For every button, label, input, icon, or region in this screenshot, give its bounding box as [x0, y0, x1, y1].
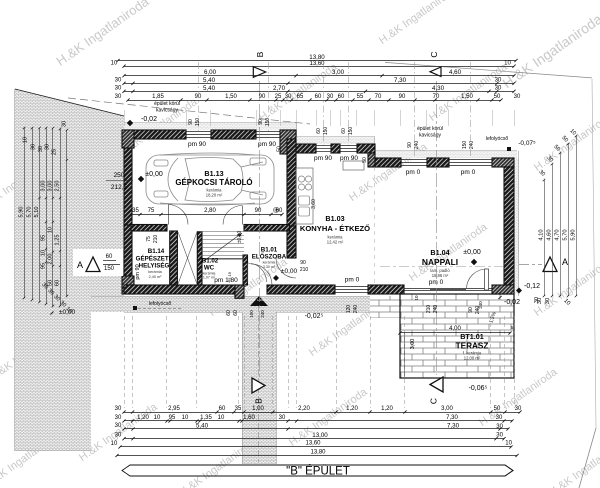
svg-text:kavicságy: kavicságy [156, 108, 178, 114]
svg-text:30: 30 [115, 415, 122, 421]
svg-text:30: 30 [495, 86, 502, 92]
svg-text:1,50: 1,50 [461, 94, 473, 100]
svg-text:30: 30 [545, 298, 551, 304]
svg-text:10: 10 [23, 137, 29, 143]
svg-text:13,60: 13,60 [305, 441, 321, 447]
window garage north 2 [256, 131, 280, 133]
left chain mid ticks [45, 221, 47, 223]
car in garage B1.13 [146, 153, 274, 205]
svg-text:4,60: 4,60 [547, 229, 553, 240]
svg-text:50: 50 [277, 146, 283, 152]
svg-text:10: 10 [504, 61, 511, 67]
svg-text:10: 10 [111, 441, 118, 447]
svg-text:30: 30 [115, 433, 122, 439]
svg-text:60: 60 [276, 208, 283, 214]
window nappali north 2 [449, 159, 492, 161]
wall bottom nappali-west [368, 285, 404, 294]
svg-text:60: 60 [315, 94, 322, 100]
section line B vertical [259, 81, 261, 377]
svg-text:1,85: 1,85 [152, 94, 164, 100]
svg-text:10: 10 [218, 415, 225, 421]
gravel strip above garage [124, 123, 296, 130]
window kitchen south [335, 286, 368, 288]
svg-text:250: 250 [114, 172, 125, 179]
section marker A left [86, 257, 100, 272]
section marker A right [543, 257, 557, 272]
svg-text:-0,06⁵: -0,06⁵ [469, 385, 488, 392]
svg-text:-0,02⁵: -0,02⁵ [305, 313, 324, 320]
door WC arc [248, 263, 267, 282]
svg-text:150: 150 [323, 127, 329, 136]
svg-text:30: 30 [115, 78, 122, 84]
svg-text:60: 60 [55, 280, 61, 286]
gravel strip below building [91, 296, 370, 312]
svg-text:GÉPÉSZETI: GÉPÉSZETI [136, 255, 171, 263]
dim row bottom 5 [120, 446, 511, 448]
svg-text:1,25: 1,25 [55, 235, 61, 246]
svg-text:2,80: 2,80 [204, 208, 216, 214]
svg-text:50: 50 [362, 157, 368, 163]
terrain hatch left band [15, 89, 124, 451]
svg-text:pm 90: pm 90 [188, 141, 206, 148]
svg-text:150: 150 [348, 127, 354, 136]
svg-text:pm 0: pm 0 [345, 277, 360, 284]
svg-text:C: C [429, 51, 439, 57]
svg-text:B1.04: B1.04 [430, 248, 449, 257]
svg-text:210: 210 [426, 305, 432, 314]
wall nappali top pier [427, 158, 449, 167]
terrain hatch edge lines [15, 89, 124, 116]
entry walkway band [242, 312, 276, 464]
svg-text:60: 60 [233, 310, 239, 316]
svg-text:12,00 m²: 12,00 m² [464, 356, 481, 361]
pier at entry [235, 285, 244, 298]
svg-text:30: 30 [496, 415, 503, 421]
svg-text:3,00: 3,00 [410, 339, 416, 350]
svg-text:-0,02: -0,02 [141, 116, 157, 123]
left dim chains [24, 128, 26, 298]
stair direction line [204, 233, 242, 261]
dim row bottom 2 [124, 420, 512, 422]
garage internal dim line [131, 214, 282, 216]
svg-text:pm 0: pm 0 [406, 169, 421, 176]
entry door opening [244, 286, 246, 288]
svg-text:150: 150 [104, 266, 115, 272]
svg-text:60: 60 [226, 310, 232, 316]
section line C vertical [436, 81, 438, 375]
svg-text:TERASZ: TERASZ [456, 342, 489, 351]
svg-text:100: 100 [249, 310, 254, 318]
svg-text:1,60: 1,60 [243, 415, 255, 421]
kitchen north table [343, 161, 364, 170]
construction lines top [124, 110, 126, 126]
svg-text:70: 70 [375, 94, 382, 100]
svg-text:WC: WC [204, 265, 215, 272]
svg-text:B: B [255, 51, 265, 57]
white box behind A marker [73, 249, 123, 276]
svg-text:95: 95 [41, 235, 47, 241]
dim row top 3 partition [124, 75, 514, 77]
svg-text:35: 35 [235, 406, 242, 412]
svg-text:30: 30 [31, 144, 37, 150]
svg-text:95: 95 [41, 263, 47, 269]
kitchen burners [298, 176, 304, 182]
svg-text:240: 240 [469, 141, 475, 150]
svg-text:B: B [254, 398, 264, 404]
svg-text:5,40: 5,40 [203, 85, 216, 92]
construction lines bottom [124, 316, 126, 408]
svg-text:pm 90: pm 90 [258, 141, 276, 148]
svg-text:90: 90 [407, 142, 413, 148]
section marker B top [253, 67, 265, 78]
wall west of garage [124, 139, 132, 225]
wall corner SE [492, 285, 514, 294]
window kitchen north 1 [316, 145, 331, 147]
svg-text:30: 30 [279, 415, 286, 421]
svg-text:pm 90: pm 90 [135, 264, 141, 279]
B epulet banner [122, 465, 513, 476]
svg-text:4,30: 4,30 [432, 85, 445, 92]
wall kitchen west lower [287, 226, 296, 258]
terrace door leaf and arc [467, 269, 487, 289]
svg-text:3,00: 3,00 [41, 181, 47, 192]
dim row bottom 6 [117, 455, 517, 457]
svg-text:10: 10 [41, 250, 47, 256]
svg-text:3,00: 3,00 [48, 181, 54, 192]
svg-text:3,60: 3,60 [311, 199, 317, 209]
stair treads [202, 231, 244, 233]
window kitchen north 2 [340, 145, 357, 147]
svg-text:13,60: 13,60 [309, 61, 325, 67]
garage floor drain [273, 207, 278, 212]
svg-text:30: 30 [45, 144, 51, 150]
wall garage/eloszoba separator [244, 225, 290, 232]
svg-text:240: 240 [353, 305, 359, 314]
svg-text:10: 10 [111, 61, 118, 67]
dim row top 6 detail [128, 100, 501, 102]
svg-text:B1.01: B1.01 [261, 247, 278, 254]
svg-text:95: 95 [169, 415, 176, 421]
svg-text:75: 75 [148, 208, 155, 214]
terrain line top-right [385, 62, 592, 78]
door eloszoba-kitchen arc [276, 258, 296, 278]
svg-text:150: 150 [265, 118, 271, 127]
dim row top 5 [124, 91, 514, 93]
svg-text:30: 30 [496, 433, 503, 439]
svg-text:±0,00: ±0,00 [237, 231, 243, 244]
svg-text:-0,12: -0,12 [524, 283, 540, 290]
svg-text:65: 65 [297, 94, 304, 100]
svg-text:HELYISÉG: HELYISÉG [139, 262, 170, 270]
svg-text:ÜT. LAKÁS: ÜT. LAKÁS [251, 298, 266, 302]
svg-text:-0,02: -0,02 [504, 299, 520, 306]
svg-text:55: 55 [357, 94, 364, 100]
svg-text:4,60: 4,60 [449, 69, 462, 76]
dim row bottom 3 [124, 428, 508, 430]
svg-text:60: 60 [316, 128, 322, 134]
svg-text:5,10: 5,10 [34, 207, 40, 218]
svg-text:25: 25 [275, 94, 282, 100]
svg-text:B1.13: B1.13 [204, 169, 223, 178]
svg-text:50: 50 [494, 406, 501, 412]
WC north wall line [202, 258, 243, 260]
svg-text:1,20: 1,20 [137, 415, 149, 421]
dim row bottom 1 [124, 412, 520, 414]
svg-text:1,35: 1,35 [200, 415, 212, 421]
svg-text:150: 150 [195, 118, 201, 127]
section marker B bottom [252, 378, 265, 393]
svg-text:5,90: 5,90 [19, 207, 25, 218]
wall stairs/WC [197, 232, 202, 285]
svg-text:10: 10 [182, 415, 189, 421]
terrace dims [400, 332, 510, 334]
svg-text:210: 210 [300, 267, 309, 273]
svg-text:pm 90: pm 90 [340, 155, 358, 162]
svg-text:75 19: 75 19 [227, 271, 232, 282]
svg-text:30: 30 [62, 121, 68, 127]
svg-text:5,70: 5,70 [563, 229, 569, 240]
svg-text:90: 90 [300, 260, 306, 266]
svg-text:3,00: 3,00 [441, 406, 453, 412]
svg-text:13,00: 13,00 [312, 432, 328, 439]
wall bottom eloszoba/kitchen [267, 285, 335, 294]
svg-text:12,42 m²: 12,42 m² [327, 240, 344, 245]
section line A stubs [100, 264, 122, 266]
svg-text:30: 30 [496, 424, 503, 430]
svg-text:90: 90 [468, 307, 474, 313]
door arc garage stairs [223, 206, 242, 225]
stair shaft cross [178, 232, 197, 284]
svg-text:30: 30 [115, 86, 122, 92]
entry arrow [250, 296, 268, 306]
svg-text:-0,07⁵: -0,07⁵ [518, 140, 536, 147]
svg-text:7,30: 7,30 [446, 415, 458, 421]
svg-text:5,90: 5,90 [571, 229, 577, 240]
svg-text:30: 30 [285, 94, 292, 100]
svg-text:3,00: 3,00 [332, 69, 345, 76]
svg-text:"B" ÉPÜLET: "B" ÉPÜLET [286, 465, 350, 478]
window nappali north 1 [401, 159, 427, 161]
svg-text:±0,00: ±0,00 [145, 171, 163, 178]
svg-text:2,70: 2,70 [273, 85, 286, 92]
svg-text:18,20 m²: 18,20 m² [206, 193, 223, 198]
svg-text:10: 10 [48, 227, 54, 233]
wall garage top-west [124, 130, 186, 139]
right dim chains [544, 180, 546, 296]
svg-text:50: 50 [494, 94, 501, 100]
svg-text:GÉPKOCSI TÁROLÓ: GÉPKOCSI TÁROLÓ [175, 178, 252, 187]
svg-text:épület körül: épület körül [417, 126, 443, 132]
svg-text:7,30: 7,30 [447, 423, 460, 430]
svg-text:épület körül: épület körül [154, 101, 180, 107]
svg-text:90: 90 [258, 119, 264, 125]
svg-text:BT1.01: BT1.01 [460, 332, 484, 341]
svg-text:5,70: 5,70 [27, 207, 33, 218]
dim row top 4 [124, 83, 514, 85]
svg-text:pm 90: pm 90 [314, 155, 332, 162]
walkway centerline [258, 306, 260, 462]
svg-text:ELŐSZOBA: ELŐSZOBA [252, 254, 287, 261]
svg-text:pm 0: pm 0 [429, 279, 444, 286]
svg-text:240: 240 [433, 305, 439, 314]
svg-text:7,30: 7,30 [394, 77, 407, 84]
svg-text:60: 60 [219, 406, 226, 412]
wall corner nappali NE [492, 158, 514, 167]
dim row top 2 13,60 [124, 66, 514, 68]
svg-text:1,20: 1,20 [381, 406, 393, 412]
svg-text:B1.03: B1.03 [325, 214, 344, 223]
terrain dashed line top-left [68, 98, 310, 124]
wall garage top-mid [211, 130, 256, 139]
door arc garage to B1.14 [168, 205, 188, 225]
dim row bottom 4 [124, 438, 504, 440]
section marker C top [430, 67, 441, 77]
svg-text:1,50: 1,50 [225, 94, 237, 100]
wall kitchen top pier [331, 144, 340, 153]
svg-text:A: A [77, 260, 83, 270]
section marker C bottom [430, 377, 443, 392]
window garage north 1 [186, 131, 211, 133]
svg-text:3,30 m²: 3,30 m² [263, 265, 276, 269]
svg-text:KONYHA - ÉTKEZŐ: KONYHA - ÉTKEZŐ [300, 224, 370, 233]
svg-text:B1.14: B1.14 [148, 248, 165, 255]
svg-text:2,00: 2,00 [48, 254, 54, 265]
svg-text:30: 30 [514, 94, 521, 100]
svg-text:6,00: 6,00 [204, 69, 217, 76]
svg-text:70: 70 [433, 94, 440, 100]
svg-text:18,86 m²: 18,86 m² [432, 273, 449, 278]
svg-text:90: 90 [399, 94, 406, 100]
svg-text:±0,00: ±0,00 [281, 268, 298, 275]
gravel strip above kitchen [296, 137, 375, 144]
svg-text:2,95: 2,95 [168, 406, 180, 412]
svg-text:1,20: 1,20 [346, 406, 358, 412]
svg-text:pm 0: pm 0 [461, 169, 476, 176]
svg-text:30: 30 [327, 94, 334, 100]
svg-text:10: 10 [505, 441, 512, 447]
svg-text:240: 240 [475, 306, 481, 315]
wall nappali top-west [375, 158, 401, 167]
svg-text:75: 75 [146, 236, 152, 242]
svg-text:60: 60 [338, 94, 345, 100]
wall garage/B1.14 separator [131, 225, 167, 232]
terrace BT1.01 slab [400, 294, 514, 378]
svg-text:NAPPALI: NAPPALI [422, 257, 458, 267]
svg-text:30: 30 [38, 146, 44, 152]
kitchen dash separator [374, 167, 376, 285]
wall step kitchen/nappali [368, 153, 375, 167]
wall kitchen top-east [357, 144, 375, 153]
pier SW corner [122, 276, 134, 294]
svg-text:10: 10 [154, 415, 161, 421]
wall corner garage/kitchen [280, 130, 296, 154]
svg-text:30: 30 [534, 297, 540, 303]
svg-text:240: 240 [260, 310, 265, 318]
door entry arc [251, 264, 272, 285]
svg-text:lefolyócső: lefolyócső [486, 136, 508, 142]
svg-text:90: 90 [188, 119, 194, 125]
wall garage east / kitchen west [287, 139, 296, 226]
svg-text:212,5: 212,5 [111, 184, 128, 191]
svg-text:kerámia: kerámia [263, 261, 276, 265]
plot boundary right [592, 79, 596, 428]
svg-text:A: A [562, 257, 568, 267]
svg-text:30: 30 [115, 423, 122, 429]
wall kitchen top-west [296, 144, 316, 153]
terrace sliding door [404, 288, 492, 290]
wall bottom south-west [124, 285, 235, 294]
svg-text:35: 35 [132, 208, 139, 214]
svg-text:30: 30 [115, 94, 122, 100]
wall west of B1.14 [124, 225, 132, 285]
svg-text:±0,00: ±0,00 [463, 249, 481, 256]
svg-text:90: 90 [259, 94, 266, 100]
gravel strip above nappali [375, 151, 517, 158]
svg-text:10: 10 [414, 295, 419, 301]
svg-text:4,00: 4,00 [449, 326, 461, 332]
svg-text:30: 30 [515, 406, 522, 412]
svg-text:240: 240 [414, 141, 420, 150]
svg-text:4,70: 4,70 [555, 229, 561, 240]
dim row top 1 13,80 [118, 60, 516, 62]
svg-text:5,40: 5,40 [203, 77, 216, 84]
svg-text:60: 60 [341, 128, 347, 134]
kitchen counter [296, 168, 313, 224]
svg-text:lefolyócső: lefolyócső [149, 301, 171, 307]
svg-text:2,50: 2,50 [55, 181, 61, 192]
svg-text:5,40: 5,40 [196, 423, 209, 430]
svg-text:kerámia: kerámia [148, 270, 162, 274]
kitchen sink [299, 196, 310, 205]
svg-text:150: 150 [462, 141, 468, 150]
svg-text:210: 210 [153, 235, 159, 244]
svg-text:25: 25 [52, 149, 58, 155]
svg-text:30: 30 [495, 78, 502, 84]
svg-text:120: 120 [346, 305, 352, 314]
svg-text:2,40 m²: 2,40 m² [149, 275, 163, 279]
svg-text:30: 30 [115, 406, 122, 412]
wall east (right) of nappali [504, 167, 514, 285]
svg-text:2,20: 2,20 [298, 406, 310, 412]
svg-text:1,00: 1,00 [252, 406, 264, 412]
wall WC/eloszoba [243, 255, 248, 285]
svg-text:13,80: 13,80 [310, 450, 326, 456]
svg-text:90: 90 [255, 208, 262, 214]
svg-text:kavicságy: kavicságy [419, 133, 441, 139]
window centerlines top [198, 62, 200, 131]
svg-text:4,10: 4,10 [539, 229, 545, 240]
svg-text:B1.02: B1.02 [202, 258, 219, 265]
brick apron left of terrace [370, 296, 400, 318]
wall B1.14 east [170, 231, 178, 285]
pier NW corner [122, 130, 134, 148]
svg-text:60: 60 [106, 254, 113, 260]
svg-text:C: C [429, 398, 439, 404]
gravel strip right of building [514, 158, 519, 294]
